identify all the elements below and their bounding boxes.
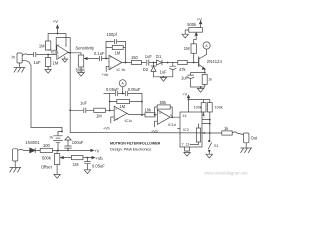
svg-text:500K: 500K: [76, 67, 86, 72]
svg-text:D1: D1: [156, 54, 162, 59]
svg-text:2N4124: 2N4124: [207, 59, 223, 64]
svg-text:1uF: 1uF: [34, 60, 42, 65]
svg-text:500k: 500k: [42, 155, 52, 160]
svg-text:+Vb: +Vb: [95, 156, 103, 161]
svg-text:MUTRON FILTER/FOLLOWER: MUTRON FILTER/FOLLOWER: [110, 141, 161, 145]
svg-text:50k: 50k: [160, 100, 168, 105]
svg-text:Design: PAiA Electronics: Design: PAiA Electronics: [110, 146, 151, 151]
svg-text:+V: +V: [94, 148, 99, 153]
svg-text:S1: S1: [214, 144, 219, 148]
svg-text:+Vb: +Vb: [151, 130, 158, 134]
svg-text:100: 100: [43, 143, 51, 148]
svg-text:0.1uF: 0.1uF: [94, 51, 105, 56]
svg-text:1M: 1M: [96, 114, 102, 119]
svg-text:7 11: 7 11: [182, 142, 190, 146]
svg-text:0.05uF: 0.05uF: [128, 87, 141, 92]
svg-text:2: 2: [203, 114, 205, 118]
svg-text:+V: +V: [197, 17, 202, 22]
svg-text:47k: 47k: [179, 67, 187, 72]
svg-text:www.circuitdiagram.net: www.circuitdiagram.net: [205, 171, 249, 176]
svg-text:9v: 9v: [50, 136, 54, 140]
svg-text:150: 150: [131, 55, 139, 60]
svg-text:+V: +V: [53, 19, 58, 24]
svg-text:IC1d: IC1d: [168, 123, 176, 127]
svg-text:1M: 1M: [39, 43, 45, 48]
svg-text:In: In: [12, 55, 16, 60]
svg-text:1M: 1M: [73, 162, 79, 167]
svg-text:0.05uF: 0.05uF: [106, 87, 119, 92]
svg-text:100uF: 100uF: [72, 140, 84, 145]
svg-text:1M: 1M: [115, 51, 121, 56]
svg-text:100pf: 100pf: [107, 32, 118, 37]
svg-text:1uF: 1uF: [145, 54, 153, 59]
svg-text:1N4001: 1N4001: [25, 140, 40, 145]
svg-text:1M: 1M: [53, 61, 59, 66]
svg-text:100k: 100k: [194, 105, 202, 109]
svg-text:Sensitivity: Sensitivity: [76, 46, 95, 51]
svg-text:1uF: 1uF: [160, 69, 168, 74]
svg-text:0.05uF: 0.05uF: [92, 164, 105, 169]
svg-text:IC2: IC2: [183, 128, 189, 132]
svg-text:IC1a: IC1a: [51, 51, 60, 55]
svg-text:1k: 1k: [224, 126, 229, 131]
svg-text:IC1c: IC1c: [125, 119, 133, 123]
svg-text:500k: 500k: [187, 22, 197, 27]
svg-text:100k: 100k: [215, 105, 223, 109]
svg-text:1: 1: [65, 44, 67, 48]
svg-text:+Vb: +Vb: [103, 127, 110, 131]
svg-text:2: 2: [58, 43, 60, 47]
svg-text:IC 1b: IC 1b: [117, 68, 126, 72]
svg-text:Out: Out: [251, 135, 258, 140]
svg-text:D2: D2: [143, 67, 149, 72]
svg-text:1M: 1M: [120, 104, 126, 109]
svg-text:1uF: 1uF: [181, 76, 189, 81]
svg-text:1k: 1k: [208, 78, 212, 82]
svg-text:1uF: 1uF: [80, 101, 88, 106]
svg-text:+Vb: +Vb: [102, 73, 109, 77]
svg-text:14: 14: [182, 114, 186, 118]
svg-text:1M: 1M: [184, 46, 190, 51]
svg-text:Offset: Offset: [41, 164, 53, 169]
svg-text:10k: 10k: [145, 108, 153, 113]
svg-text:+V: +V: [183, 93, 188, 97]
